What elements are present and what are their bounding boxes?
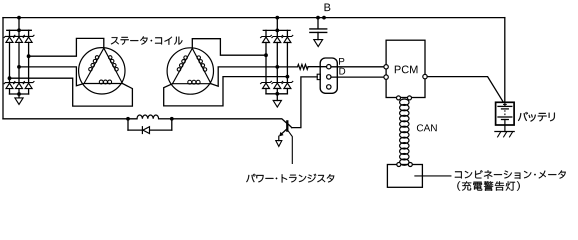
transistor Q1 collector stroke [288,124,292,128]
wire: stub from diode D12 to ground bus [286,89,288,94]
PCM U1 box [386,40,425,97]
wire: stub to diode D9 [286,30,288,36]
wire: stub from diode D4 to ground bus [9,89,11,94]
diode D1 (left rectifier, upper row) [4,35,16,38]
ground (middle rectifier) [273,101,281,108]
transistor Q1 base bar [286,121,288,130]
wire: phase V (left rectifier to stator 1 lower-left vertex) [19,67,84,86]
ground (capacitor) [314,40,323,47]
wire: stub from diode D11 to ground bus [276,89,278,94]
capacitor C1 (noise suppressor) [310,28,327,30]
wire: middle rectifier upper cathode bus [263,29,290,31]
diode D5 (left rectifier, lower row) [13,81,25,84]
wire: column 3 of left rectifier [28,42,30,82]
wire: field coil right segment [159,118,172,120]
connector CN (alternator P/D connector) [320,58,337,93]
stator coil 1 (delta winding) [79,48,125,94]
wire: B+ rail to field coil [3,118,137,120]
wire: B+ drop to middle rectifier bus [276,18,278,31]
wire: phase Y (stator 2 lower-right vertex to middle rectifier, continues to resistor) [211,67,298,86]
wire: stub to ground [18,94,20,98]
wire: column 2 of middle rectifier [276,43,278,83]
wire: column 1 of left rectifier [9,42,11,82]
junction: middle rectifier ground node [275,92,279,96]
junction: field coil left node [126,117,130,121]
wire: resistor to connector P pin [308,66,327,68]
label: B terminal [325,4,331,12]
wire: D tab to power transistor collector [292,77,317,128]
wire: stub from diode D6 to ground bus [28,89,30,94]
wire: B+ drop to left rectifier bus [18,18,20,31]
wire: flyback branch left [127,119,129,130]
wire: P pin to PCM [331,66,384,68]
wire: PCM to battery [427,77,503,103]
wire: stub to diode D3 [28,30,30,36]
wire: column 3 of middle rectifier [286,43,288,83]
junction: field coil right node [170,117,174,121]
PCM pin CAN-H [397,96,401,100]
wire: D pin to PCM [331,76,384,78]
wire: stub to ground [276,94,278,101]
wire: left rectifier anode bus [10,93,29,95]
wire: stub from diode D5 to ground bus [18,89,20,94]
diode D13 (field flyback diode) [141,127,143,134]
chassis ground (battery) [495,131,514,133]
diode D12 (middle rectifier, lower row) [282,81,294,84]
wire: phase W (left rectifier under stator 1 to lower-right vertex) [10,78,133,106]
wire: stub to diode D7 [265,30,267,36]
wire: middle rectifier anode bus [266,93,287,95]
diode D3 (left rectifier, upper row) [23,35,35,38]
label: CAN [417,124,437,131]
resistor R1 (P terminal series resistor) [298,64,309,69]
wire: battery to chassis ground [504,125,506,132]
diode D2 (left rectifier, upper row) [13,35,25,38]
connector D tab [317,74,320,79]
PCM pin D [384,75,388,79]
PCM pin B+ [423,74,427,78]
wire: column 1 of middle rectifier [265,43,267,83]
label leader: combination meter [415,175,451,177]
node B (battery terminal) [316,16,320,20]
junction: left rectifier cathode bus [17,28,21,32]
wire: B+ bus drop to battery [504,18,506,103]
junction: phase X tap [264,53,268,57]
field coil L1 (rotor coil) [137,115,159,119]
label: battery [518,112,555,122]
wire: column 2 of left rectifier [18,42,20,82]
junction: left rectifier ground node [17,92,21,96]
wire: stub to diode D8 [276,30,278,36]
wire: stub from diode D10 to ground bus [265,89,267,94]
junction: phase Y tap [275,65,279,69]
transistor Q1 emitter with arrow [280,128,287,135]
label: power transistor [246,174,334,183]
wire: capacitor to ground [317,32,319,39]
stator coil 2 (delta winding) [167,48,213,94]
connector pin P [327,65,331,69]
wire: phase U (left rectifier to stator 1 top vertex) [29,38,104,56]
diode D10 (middle rectifier, lower row) [260,81,272,84]
diode D6 (left rectifier, lower row) [23,81,35,84]
wire: B+ bus from left rail to battery drop [3,17,505,19]
junction: B+ to middle rectifier [275,16,279,20]
junction: phase V tap [17,65,21,69]
junction: phase U tap [27,54,31,58]
diode D11 (middle rectifier, lower row) [272,81,284,84]
wire: flyback branch right [171,119,173,130]
junction: phase Z tap [286,75,290,79]
wire: B terminal to capacitor [317,18,319,29]
wire: left B+ rail down left edge [2,18,4,119]
wire: stub to diode D1 [9,30,11,36]
label: D terminal [339,68,345,75]
wire: stub to diode D2 [18,30,20,36]
connector pin D [327,75,331,79]
battery cells [504,102,506,106]
junction: B+ to left rectifier [17,16,21,20]
label: charge warning light [457,181,519,190]
wire: phase X (stator 2 top vertex to middle rectifier) [192,39,266,56]
ground (left rectifier) [15,98,23,105]
CAN twisted-pair bus [400,99,409,105]
PCM pin CAN-L [408,96,412,100]
label: P terminal [339,58,344,65]
meter pin CAN-L [408,163,412,167]
label: stator coil [111,36,183,44]
diode D8 (middle rectifier, upper row) [272,35,284,38]
connector pin (unused) [327,85,331,89]
battery BT1 box [496,102,514,125]
diode D4 (left rectifier, lower row) [4,81,16,84]
label: combination meter [455,170,566,179]
junction: phase W tap [8,76,12,80]
wire: field coil to transistor base [172,119,287,124]
PCM pin P [384,65,388,69]
ground (power transistor emitter) [276,141,282,147]
wire: phase Z (stator 2 lower-left vertex under coil to middle rectifier) [164,77,288,106]
diode D9 (middle rectifier, upper row) [282,35,294,38]
wire: left rectifier upper cathode bus [7,29,32,31]
label pointer: power transistor [288,131,292,164]
wire: flyback branch bottom [128,129,142,131]
label: PCM [395,66,418,74]
combination meter box [387,165,422,188]
meter pin CAN-H [397,163,401,167]
junction: middle rectifier cathode bus [275,29,279,33]
diode D7 (middle rectifier, upper row) [260,35,272,38]
